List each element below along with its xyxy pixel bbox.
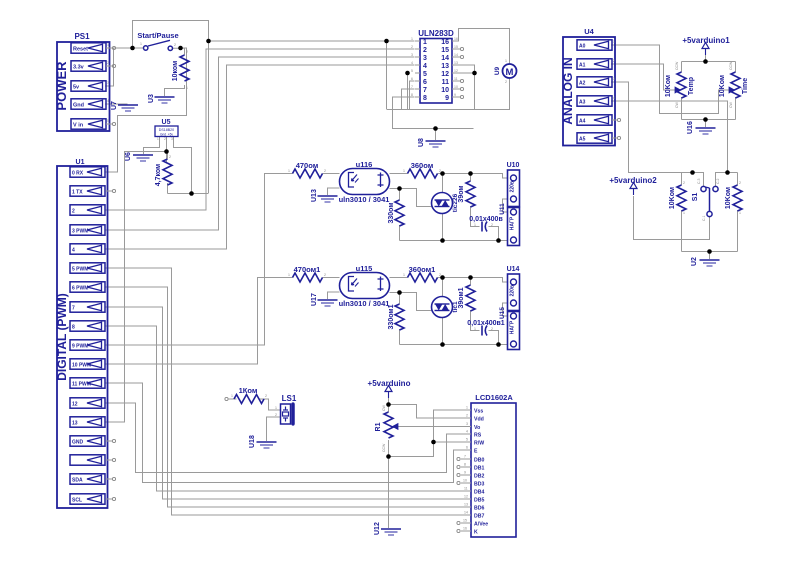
svg-text:1: 1	[140, 42, 142, 46]
svg-text:SDA: SDA	[72, 478, 83, 484]
svg-text:Temp: Temp	[688, 77, 695, 95]
triac tic226	[432, 193, 460, 214]
node s1 left	[690, 170, 695, 175]
node lcd 5v	[386, 402, 391, 407]
svg-text:10Kом: 10Kом	[719, 75, 726, 97]
wire U1 pin5 to LCD DB7	[105, 268, 465, 515]
wire ULN pin1 feed	[209, 40, 415, 42]
wire triac1 gate	[400, 189, 433, 207]
svg-text:CW: CW	[382, 404, 386, 411]
wire U14 pin2 to U15 pin1	[503, 303, 508, 316]
U1 pin 13	[70, 417, 105, 427]
svg-text:14: 14	[441, 55, 449, 62]
svg-text:V in: V in	[73, 123, 84, 129]
svg-text:2: 2	[164, 137, 166, 141]
resistor 470om1	[288, 265, 326, 282]
svg-text:S1: S1	[692, 193, 699, 202]
pin stubs right	[452, 40, 457, 42]
svg-text:4: 4	[423, 63, 427, 70]
svg-text:GND: GND	[72, 440, 84, 446]
node ds18b20 data	[164, 149, 169, 154]
ground U6	[125, 152, 153, 161]
svg-text:Reset: Reset	[73, 47, 88, 53]
wire U11 pin2 to rail	[498, 240, 508, 242]
wire U15 pin2 to rail	[498, 344, 508, 346]
wire opto1 led cathode to gnd U13	[328, 188, 340, 195]
pin A3	[577, 96, 615, 106]
wire 330om1 bottom to rail	[399, 329, 401, 345]
svg-text:2: 2	[491, 327, 493, 331]
pin Gnd	[71, 99, 109, 109]
svg-text:ANALOG IN: ANALOG IN	[561, 57, 575, 124]
U1 pin 10 PWM	[70, 359, 105, 369]
ground U8	[418, 138, 446, 147]
power flag +5varduino2	[609, 176, 657, 195]
node uln pin5	[405, 71, 410, 76]
svg-text:10: 10	[454, 85, 458, 89]
svg-text:DB4: DB4	[474, 490, 484, 496]
ground U3	[148, 94, 175, 103]
svg-text:CW: CW	[675, 101, 679, 108]
svg-text:2: 2	[739, 181, 741, 185]
wire 39om1 top	[470, 278, 472, 286]
svg-text:3: 3	[171, 137, 173, 141]
LCD pin DB1	[457, 463, 485, 472]
LCD pin DB2	[457, 471, 485, 480]
node 39om top	[468, 171, 473, 176]
wire S1 right rail	[716, 173, 738, 187]
U1 pin SCL	[70, 494, 116, 504]
svg-text:10 PWM: 10 PWM	[72, 363, 91, 369]
wire ULN pin7 drop	[402, 89, 415, 110]
svg-text:9: 9	[464, 471, 466, 475]
wire S1 gnd rail	[682, 251, 738, 253]
LCD pin E	[465, 446, 479, 455]
svg-text:7: 7	[423, 87, 427, 94]
node s1 right	[725, 170, 730, 175]
svg-text:U5: U5	[162, 119, 171, 126]
LCD pin DB7	[464, 511, 484, 520]
svg-text:1: 1	[411, 37, 413, 41]
svg-text:9: 9	[445, 95, 449, 102]
svg-text:1: 1	[739, 211, 741, 215]
svg-text:8: 8	[464, 463, 466, 467]
svg-text:DB2: DB2	[474, 474, 484, 480]
svg-text:DB7: DB7	[474, 514, 484, 520]
svg-text:2: 2	[411, 45, 413, 49]
capacitor 0.01x400v1	[467, 320, 504, 336]
svg-text:10ком: 10ком	[172, 61, 179, 82]
wire ULN pin5 drop	[407, 73, 409, 110]
svg-text:U12: U12	[374, 522, 381, 535]
svg-text:4: 4	[466, 430, 468, 434]
wire ULN pin6 drop	[410, 81, 415, 110]
wire triac2 bottom	[442, 317, 444, 345]
svg-text:8: 8	[423, 95, 427, 102]
svg-text:2: 2	[683, 181, 685, 185]
wire Time top stub	[735, 62, 737, 73]
U1 pin 0 RX	[70, 167, 105, 177]
svg-text:M: M	[506, 67, 514, 78]
svg-text:2: 2	[174, 43, 176, 47]
wire 5varduino stem lcd	[388, 394, 390, 412]
node triac1 bottom	[440, 238, 445, 243]
wire U1 pin8 to LCD DB4	[105, 326, 465, 491]
svg-text:1: 1	[288, 273, 290, 277]
wire triac2 gate	[400, 293, 433, 311]
wire S1 right resistor	[737, 173, 739, 186]
svg-text:13: 13	[464, 503, 468, 507]
svg-text:10Kом: 10Kом	[669, 187, 676, 209]
svg-text:0 RX: 0 RX	[72, 171, 84, 177]
svg-text:U3: U3	[148, 94, 155, 103]
node opto1 gate	[397, 186, 402, 191]
resistor 330om1	[388, 304, 404, 330]
resistor 39om	[458, 181, 475, 207]
svg-text:1: 1	[423, 39, 427, 46]
svg-text:1: 1	[613, 40, 615, 44]
resistor 39om1	[458, 285, 475, 311]
svg-text:Vss: Vss	[474, 409, 483, 415]
connector U10	[507, 162, 520, 207]
wire U1 pin6 to LCD DB6	[105, 287, 465, 507]
ground U17	[311, 293, 338, 306]
sensor U5 DS18B20	[155, 119, 178, 141]
wire opto1 out to 360om	[390, 173, 408, 175]
svg-text:2: 2	[275, 413, 277, 417]
wire 330om bottom to rail	[399, 225, 401, 241]
LCD pin DB4	[464, 487, 484, 496]
svg-text:1: 1	[505, 59, 507, 63]
svg-text:3: 3	[411, 53, 413, 57]
svg-text:A2: A2	[579, 81, 586, 87]
wire S1 right resistor bottom	[737, 210, 739, 252]
driver IC ULN2003D	[411, 29, 464, 103]
wire DS18B20 pin3 to 5v rail	[174, 136, 192, 194]
svg-text:uln3010 / 3041: uln3010 / 3041	[339, 299, 390, 308]
wire U8 ground stem	[435, 129, 437, 141]
wire S1 left resistor bottom	[681, 210, 683, 252]
wire U1 pin11 to LCD E	[105, 383, 465, 483]
svg-text:5: 5	[411, 69, 413, 73]
wire U16 stem	[705, 120, 707, 128]
node pot gnd rail	[703, 117, 708, 122]
U1 pin 5 PWM	[70, 263, 105, 273]
svg-text:12: 12	[454, 69, 458, 73]
wire R1 bottom node	[388, 440, 390, 528]
svg-text:15: 15	[441, 47, 449, 54]
svg-text:10: 10	[463, 479, 467, 483]
svg-text:2: 2	[186, 50, 188, 54]
node 5v rail ds18b20	[189, 191, 194, 196]
svg-text:12: 12	[72, 402, 78, 408]
svg-text:3: 3	[423, 55, 427, 62]
svg-text:1: 1	[683, 211, 685, 215]
potentiometer Temp	[665, 61, 695, 108]
svg-text:SCL: SCL	[72, 498, 82, 504]
svg-text:A4: A4	[579, 119, 586, 125]
svg-text:12: 12	[464, 495, 468, 499]
svg-text:1: 1	[403, 169, 405, 173]
pin stubs left	[415, 40, 420, 42]
LCD1602A	[471, 393, 516, 537]
node 5v branch uln	[384, 39, 389, 44]
wire triac2 top feed	[442, 278, 444, 298]
svg-text:2: 2	[324, 273, 326, 277]
svg-text:13: 13	[441, 63, 449, 70]
analog header U4	[561, 27, 615, 146]
svg-text:1 TX: 1 TX	[72, 190, 83, 196]
node lcd rw gnd	[431, 440, 436, 445]
ground U2	[691, 257, 720, 266]
svg-text:U8: U8	[418, 138, 425, 147]
svg-text:POWER: POWER	[54, 61, 69, 111]
wire 5v to LCD Vdd	[389, 405, 465, 419]
svg-text:R/W: R/W	[474, 441, 484, 447]
U1 pin GND	[70, 436, 116, 446]
wire 39om1 bottom to cap	[471, 310, 480, 331]
svg-text:Vo: Vo	[474, 425, 480, 431]
wire start/pause to U1 pin0	[105, 48, 187, 172]
svg-text:Time: Time	[742, 78, 749, 94]
svg-text:2: 2	[466, 414, 468, 418]
svg-text:2: 2	[613, 59, 615, 63]
svg-text:U7: U7	[111, 101, 118, 110]
svg-text:НАГР: НАГР	[510, 320, 516, 334]
svg-text:220в.: 220в.	[510, 179, 516, 192]
node ground rail U8	[433, 126, 438, 131]
svg-text:CCW: CCW	[729, 61, 733, 70]
wire opto1 470om to opto	[323, 173, 340, 175]
wire buzzer pin2 to gnd U18	[267, 417, 281, 441]
wire DS18B20 pin1 to gnd U6	[144, 136, 160, 154]
svg-text:1: 1	[403, 273, 405, 277]
U1 pin 11 PWM	[70, 378, 105, 388]
svg-text:CCW: CCW	[675, 61, 679, 70]
svg-text:U6: U6	[125, 152, 132, 161]
LCD pin RW	[465, 438, 485, 447]
svg-text:4: 4	[613, 96, 615, 100]
svg-text:6: 6	[466, 446, 468, 450]
wire ULN pin16 to motor top	[452, 29, 510, 65]
wire R1 wiper to LCD Vo	[398, 426, 465, 428]
U1 pin 7	[70, 302, 105, 312]
svg-text:U17: U17	[311, 293, 318, 306]
wire motor bottom rail	[387, 109, 475, 111]
svg-text:11: 11	[464, 487, 468, 491]
node s1 gnd	[707, 249, 712, 254]
LCD pin Vss	[465, 406, 484, 415]
connector U14	[507, 266, 520, 311]
U1 pin 2	[70, 205, 105, 215]
svg-text:U16: U16	[687, 121, 694, 134]
LCD pin Vdd	[465, 414, 484, 423]
wire DS18B20 pin2 data	[166, 136, 168, 162]
wire U4 A2 to S1 left	[611, 82, 682, 173]
svg-text:3: 3	[107, 81, 109, 85]
svg-text:11: 11	[442, 79, 450, 86]
wire 5v from PS1 to switch	[105, 48, 143, 86]
U1 pin 3 PWM	[70, 225, 105, 235]
U1 pin 6 PWM	[70, 282, 105, 292]
wire PS1 gnd to U7	[105, 103, 128, 105]
ground U12	[374, 522, 401, 535]
LCD pin DB3	[457, 479, 485, 488]
wire U1 pin3 to ULN pin3	[105, 57, 415, 230]
capacitor 0.01x400v	[469, 216, 503, 232]
ground U16	[687, 121, 716, 134]
wire U1 pin12 to LCD RS	[105, 403, 465, 473]
svg-text:DB1: DB1	[474, 466, 484, 472]
svg-text:39ом1: 39ом1	[458, 287, 465, 308]
svg-text:E: E	[474, 449, 478, 455]
svg-text:U13: U13	[311, 189, 318, 202]
svg-text:5: 5	[107, 119, 109, 123]
svg-text:4: 4	[411, 61, 413, 65]
svg-text:ULN283D: ULN283D	[418, 29, 454, 38]
svg-text:4,7ком: 4,7ком	[155, 164, 162, 187]
svg-text:5: 5	[466, 438, 468, 442]
wire ULN pin13 to pin12 join	[452, 65, 475, 73]
svg-text:2: 2	[72, 209, 75, 215]
svg-text:DS18B20: DS18B20	[159, 128, 174, 132]
svg-text:CW: CW	[729, 101, 733, 108]
wire U1 pin2 to ULN pin2	[105, 49, 415, 210]
digital header U1	[55, 159, 108, 508]
pin A1	[577, 59, 615, 69]
svg-text:330ом: 330ом	[388, 202, 395, 223]
svg-text:K: K	[474, 530, 478, 536]
svg-text:uln3010 / 3041: uln3010 / 3041	[339, 195, 390, 204]
node opto2 gate	[397, 290, 402, 295]
connector U11	[499, 203, 520, 246]
wire ULN pin8 to ground rail	[393, 97, 474, 129]
wire triac1 bottom	[442, 213, 444, 241]
LCD pin DB0	[457, 455, 485, 464]
wire ULN pin12 to motor bottom	[452, 73, 510, 110]
svg-text:1: 1	[288, 169, 290, 173]
svg-text:1: 1	[107, 43, 109, 47]
svg-text:Vdd: Vdd	[474, 417, 484, 423]
svg-text:220в.: 220в.	[510, 283, 516, 296]
svg-text:2: 2	[324, 169, 326, 173]
potentiometer Time	[719, 61, 749, 108]
svg-text:15: 15	[454, 45, 458, 49]
wire branch down from dot 386	[386, 41, 388, 109]
wire S1 left resistor	[681, 173, 683, 186]
wire U1 pin4 to ULN pin4	[105, 65, 415, 249]
U1 pin 1 TX	[70, 186, 116, 196]
svg-text:470ом: 470ом	[296, 161, 319, 170]
svg-text:39ом: 39ом	[458, 185, 465, 202]
wire U10 pin2 to U11 pin1	[503, 199, 508, 212]
ground U7	[111, 101, 138, 111]
svg-text:Gnd +5v: Gnd +5v	[160, 133, 173, 137]
pin A4	[577, 115, 621, 125]
LCD pin K	[457, 527, 478, 536]
pin A0	[577, 40, 615, 50]
svg-text:R1: R1	[375, 422, 382, 431]
svg-text:C.2: C.2	[716, 179, 720, 185]
pin A2	[577, 77, 615, 87]
svg-text:1: 1	[231, 394, 233, 398]
svg-text:RS: RS	[474, 433, 482, 439]
LCD pin DB6	[464, 503, 484, 512]
wire opto1 triacside bottom to 330om	[390, 189, 400, 201]
resistor 1kom buzzer	[225, 386, 267, 404]
resistor 4.7kom	[155, 152, 172, 187]
node 39om1 top	[468, 275, 473, 280]
svg-text:A3: A3	[579, 100, 586, 106]
power header PS1	[54, 32, 110, 131]
node uln pin1 branch	[206, 39, 211, 44]
svg-text:1: 1	[275, 406, 277, 410]
pin 5v	[71, 81, 109, 91]
wire S1 left rail	[682, 173, 704, 187]
svg-text:CCW: CCW	[382, 443, 386, 452]
svg-text:6: 6	[411, 77, 413, 81]
svg-text:U10: U10	[507, 162, 520, 169]
resistor 10kom pullup	[172, 50, 189, 90]
node lcd gnd	[386, 454, 391, 459]
wire opto2 470om1 to opto	[323, 277, 340, 279]
svg-text:2: 2	[491, 223, 493, 227]
svg-text:360ом: 360ом	[411, 161, 434, 170]
svg-text:7: 7	[72, 306, 75, 312]
wire 1kom to buzzer pin1	[260, 399, 281, 410]
wire 360om to U10	[438, 174, 508, 179]
svg-text:1: 1	[474, 327, 476, 331]
U1 pin SDA	[70, 474, 116, 484]
svg-text:10: 10	[441, 87, 449, 94]
svg-text:U4: U4	[584, 27, 594, 36]
svg-text:3: 3	[613, 77, 615, 81]
U1 pin 4	[70, 244, 105, 254]
wire Temp top stub	[681, 62, 683, 73]
svg-text:14: 14	[454, 53, 458, 57]
svg-text:8: 8	[72, 325, 75, 331]
node cap2 rail	[496, 342, 501, 347]
svg-text:C.1: C.1	[702, 216, 706, 222]
wire U4 A1 to Temp wiper	[611, 64, 675, 90]
resistor 360om	[403, 161, 441, 178]
node uln pin12-13	[472, 71, 477, 76]
svg-text:1: 1	[466, 406, 468, 410]
svg-text:3 PWM: 3 PWM	[72, 229, 88, 235]
svg-text:Gnd: Gnd	[73, 103, 84, 109]
resistor 470om	[288, 161, 326, 178]
wire opto2 out to 360om1	[390, 277, 408, 279]
node switch-5v	[130, 46, 135, 51]
U1 pin 9 PWM	[70, 340, 105, 350]
pin Reset	[71, 43, 116, 53]
potentiometer R1	[375, 404, 398, 452]
svg-text:13: 13	[454, 61, 458, 65]
svg-text:PS1: PS1	[74, 32, 90, 41]
wire 5varduino2 to S1 common	[634, 196, 710, 240]
svg-text:11: 11	[454, 77, 458, 81]
svg-text:330ом1: 330ом1	[388, 304, 395, 329]
node triac1 top	[440, 171, 445, 176]
wire 10k bottom to ground U3	[165, 85, 185, 96]
svg-text:4: 4	[72, 248, 75, 254]
ground U13	[311, 189, 338, 202]
U1 pin AREF	[70, 455, 116, 465]
switch S1	[692, 179, 720, 222]
wire opto2 triacside bottom to 330om1	[390, 293, 400, 305]
svg-text:3: 3	[466, 422, 468, 426]
svg-text:DIGITAL (PWM): DIGITAL (PWM)	[55, 293, 69, 381]
